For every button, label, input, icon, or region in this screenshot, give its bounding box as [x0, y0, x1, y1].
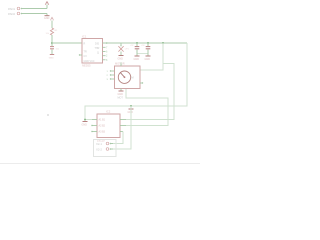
svg-text:10k: 10k	[46, 33, 50, 35]
wire C2 down	[136, 49, 138, 53]
svg-text:GND: GND	[118, 93, 124, 96]
wire: output rail from IC1 pin 3	[103, 42, 188, 44]
svg-text:IC1: IC1	[82, 35, 87, 39]
capacitor C3	[142, 45, 151, 49]
svg-text:2: 2	[107, 75, 109, 77]
svg-text:3: 3	[107, 79, 109, 81]
svg-text:X2-1: X2-1	[96, 142, 102, 146]
supply VCC2 (left chain)	[50, 17, 53, 20]
junction on rail at C3	[147, 42, 149, 44]
svg-text:GND: GND	[128, 111, 134, 114]
resistor R1	[46, 28, 59, 35]
svg-text:X2-2: X2-2	[96, 148, 102, 152]
wire rail corner down to motor M1 right pin	[140, 43, 163, 70]
wire rail to capacitor C3	[147, 43, 149, 46]
connector pad J1 pin 1	[8, 7, 22, 11]
svg-text:THR: THR	[95, 47, 100, 50]
ground GND5 under C3	[145, 54, 151, 61]
svg-text:1: 1	[107, 71, 109, 73]
ground GND1	[44, 14, 50, 21]
svg-text:M: M	[132, 77, 134, 80]
wire C3 down	[147, 49, 149, 53]
IC2 right pin stubs	[120, 120, 126, 132]
IC1 left pin 6 stub	[79, 54, 82, 55]
wire J1.1 to VCC	[22, 8, 48, 10]
wire IC2 pin B3 to connector X2 pin 1	[113, 132, 123, 144]
connector X2 pin 1	[96, 142, 113, 146]
svg-text:GND: GND	[49, 57, 54, 59]
M1 bottom pin to GND8	[118, 89, 124, 96]
wire rail to lamp LP1	[120, 43, 122, 46]
svg-text:LP1: LP1	[125, 49, 130, 51]
ground GND2	[49, 55, 54, 60]
op IC1 NE555 timer box	[82, 35, 103, 68]
wire GND loop from rail right end	[85, 43, 187, 120]
svg-text:MOT: MOT	[118, 97, 124, 100]
svg-text:NE555: NE555	[82, 64, 91, 68]
wire joining C2/C3 bottoms	[137, 53, 148, 55]
svg-text:A2 B2: A2 B2	[99, 125, 106, 128]
junction on rail at right drop	[162, 42, 164, 44]
wire motor pin 2 to IC2 right pin 2	[126, 89, 168, 126]
svg-text:GND: GND	[118, 57, 124, 60]
svg-text:DIS: DIS	[95, 43, 99, 46]
svg-text:C2: C2	[131, 45, 135, 47]
M1 left pin stubs	[111, 71, 143, 83]
IC1 right pin stubs with pin numbers	[103, 47, 106, 60]
svg-text:TR: TR	[84, 51, 87, 54]
svg-text:IC2: IC2	[106, 109, 111, 113]
svg-text:2: 2	[106, 55, 108, 58]
IC2 left pin stubs	[92, 120, 97, 132]
svg-text:C3: C3	[142, 45, 146, 47]
wire branch to IC2 right pin 1	[126, 64, 174, 120]
ground GND7 at IC2 left pin	[82, 119, 88, 127]
frame border bottom	[0, 163, 200, 165]
svg-text:10n: 10n	[56, 49, 60, 51]
svg-text:8: 8	[106, 59, 108, 62]
svg-text:6: 6	[106, 51, 108, 54]
connector pad J1 pin 2	[8, 12, 22, 16]
svg-text:GND: GND	[145, 58, 151, 61]
wire VCC2 to R1	[51, 20, 53, 28]
svg-text:Q: Q	[97, 51, 99, 54]
junction GND net at x131	[130, 105, 132, 107]
wire rail to capacitor C2	[136, 43, 138, 46]
svg-text:MOTOR: MOTOR	[115, 61, 125, 65]
IC2 driver box	[97, 109, 120, 142]
svg-text:A1 B1: A1 B1	[99, 119, 106, 122]
svg-text:PAD1: PAD1	[8, 7, 16, 11]
wire J1.2 to GND	[22, 13, 48, 15]
node label dot (stray mark)	[47, 114, 49, 116]
ground GND4 under C2	[134, 54, 140, 61]
svg-text:CV: CV	[84, 55, 88, 58]
svg-text:GND VCC: GND VCC	[84, 60, 95, 63]
svg-text:R1: R1	[55, 30, 59, 32]
connector X2 box	[94, 140, 117, 157]
wire C1 to GND2	[51, 49, 53, 54]
svg-text:7: 7	[106, 46, 108, 49]
svg-text:GND: GND	[134, 58, 140, 61]
svg-text:A3 B3: A3 B3	[99, 131, 106, 134]
node A junction	[51, 42, 53, 44]
connector X2 pin 2	[96, 148, 113, 152]
ground GND3	[118, 56, 124, 61]
svg-text:R: R	[84, 43, 86, 46]
svg-text:GND: GND	[44, 17, 50, 20]
capacitor C1	[50, 47, 60, 51]
svg-text:3: 3	[106, 42, 108, 45]
lamp LP1 (X symbol)	[118, 46, 129, 51]
svg-text:GND: GND	[82, 123, 88, 126]
wire GND loop down to connector X2 pin 2	[113, 106, 131, 149]
ground GND6 on loop	[128, 106, 134, 114]
motor/meter M1 box	[115, 61, 141, 88]
capacitor C2	[131, 45, 140, 49]
wire node A to IC1 pin 2	[52, 42, 82, 44]
supply VCC (top)	[45, 2, 49, 9]
svg-text:PAD2: PAD2	[8, 12, 16, 16]
wire R1 to node A	[51, 35, 53, 46]
junction on rail at C2	[136, 42, 138, 44]
wire LP1 to GND3	[120, 52, 122, 56]
